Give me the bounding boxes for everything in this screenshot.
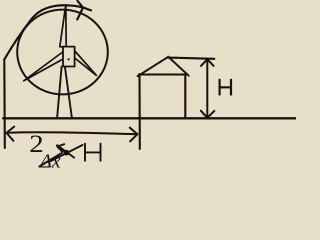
right blade [74,50,97,76]
label H (bottom) [85,144,101,161]
rotation arrowhead [77,1,83,20]
distance arrow left head [7,127,15,141]
scribble long strike A [51,145,83,161]
H arrow top head [201,59,214,66]
distance arrow shaft [7,132,138,134]
top blade [60,5,66,47]
hub [63,47,75,67]
ground line [3,117,296,119]
roof left slope [138,57,169,76]
house left wall (extended below ground) [138,74,140,149]
scribble dot [63,150,69,156]
roof right slope [168,57,188,76]
hub dot [68,58,70,60]
tower right line [65,67,72,118]
house eaves line [139,74,186,76]
house right wall [184,74,186,119]
distance arrow right head [130,128,138,142]
rotation arrow arc [4,5,91,59]
left extension line [3,60,6,149]
H arrow bottom head [201,111,215,118]
rotor circle [17,10,108,95]
scribble small arrowhead [57,144,64,152]
scribble strike through Δx [39,153,62,167]
label H (house height) [220,80,231,95]
scribble strike B [57,145,74,157]
scribble small arrow shaft [57,147,67,153]
height reference tick from roof apex [168,58,215,59]
H dimension arrow shaft [206,60,208,118]
left blade [24,51,64,81]
tower left line [57,67,62,118]
